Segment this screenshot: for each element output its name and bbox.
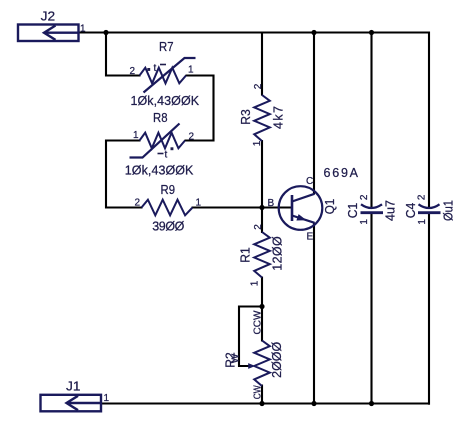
svg-text:2: 2 bbox=[130, 66, 136, 77]
svg-text:1: 1 bbox=[104, 393, 110, 404]
svg-text:2ØØØ: 2ØØØ bbox=[270, 342, 284, 378]
svg-text:J2: J2 bbox=[41, 8, 56, 23]
svg-text:1: 1 bbox=[80, 24, 86, 35]
svg-text:1: 1 bbox=[133, 130, 139, 141]
svg-text:R8: R8 bbox=[153, 110, 168, 125]
svg-text:R2: R2 bbox=[222, 352, 237, 368]
svg-text:2: 2 bbox=[135, 197, 141, 208]
svg-text:2: 2 bbox=[253, 83, 264, 89]
svg-text:J1: J1 bbox=[66, 378, 81, 393]
svg-text:B: B bbox=[268, 198, 275, 209]
svg-text:R7: R7 bbox=[159, 39, 174, 54]
svg-text:2: 2 bbox=[417, 194, 428, 200]
svg-text:t: t bbox=[154, 63, 157, 74]
svg-text:1: 1 bbox=[250, 280, 261, 286]
svg-text:1Øk,43ØØK: 1Øk,43ØØK bbox=[125, 164, 194, 178]
svg-text:1: 1 bbox=[417, 219, 428, 225]
svg-text:2: 2 bbox=[359, 194, 370, 200]
svg-text:2: 2 bbox=[253, 224, 264, 230]
svg-text:669A: 669A bbox=[324, 166, 359, 180]
svg-text:Q1: Q1 bbox=[322, 199, 337, 215]
svg-text:1: 1 bbox=[252, 140, 263, 146]
svg-text:E: E bbox=[307, 232, 314, 243]
svg-text:R3: R3 bbox=[238, 109, 253, 125]
svg-text:12ØØ: 12ØØ bbox=[271, 236, 285, 271]
svg-text:C4: C4 bbox=[403, 203, 418, 219]
svg-text:CW: CW bbox=[253, 385, 264, 399]
svg-text:1: 1 bbox=[359, 219, 370, 225]
svg-text:1Øk,43ØØK: 1Øk,43ØØK bbox=[131, 94, 200, 108]
svg-text:R1: R1 bbox=[237, 247, 252, 263]
svg-text:39ØØ: 39ØØ bbox=[152, 219, 184, 233]
svg-text:4u7: 4u7 bbox=[384, 200, 398, 221]
svg-text:2: 2 bbox=[189, 132, 195, 143]
svg-text:C: C bbox=[306, 176, 313, 187]
svg-text:C1: C1 bbox=[345, 203, 360, 219]
svg-text:1: 1 bbox=[196, 197, 202, 208]
svg-text:4k7: 4k7 bbox=[272, 106, 286, 129]
svg-text:R9: R9 bbox=[161, 182, 176, 197]
svg-text:t: t bbox=[165, 150, 168, 161]
svg-text:1: 1 bbox=[188, 65, 194, 76]
svg-text:Øu1: Øu1 bbox=[442, 200, 456, 221]
svg-text:CCW: CCW bbox=[253, 310, 264, 334]
